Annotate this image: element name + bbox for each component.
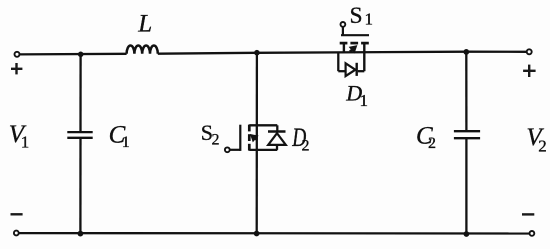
svg-text:1: 1 — [21, 133, 30, 152]
svg-text:1: 1 — [360, 91, 369, 110]
svg-text:2: 2 — [538, 137, 547, 156]
svg-text:S: S — [350, 3, 363, 29]
svg-text:2: 2 — [212, 131, 220, 148]
svg-text:L: L — [137, 11, 152, 38]
svg-text:2: 2 — [428, 135, 436, 152]
svg-text:1: 1 — [122, 134, 130, 151]
svg-text:2: 2 — [302, 138, 310, 155]
svg-text:1: 1 — [365, 9, 374, 28]
